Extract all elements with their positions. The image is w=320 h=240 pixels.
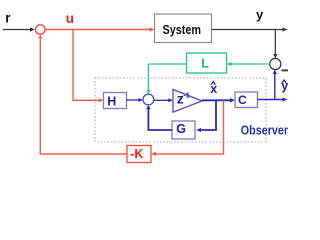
summing junction S2	[270, 58, 281, 69]
wire L to S3	[148, 64, 186, 91]
block G	[172, 121, 195, 139]
wire yhat up to S2	[274, 72, 276, 100]
wire yhat out	[258, 99, 284, 101]
wire xhat to K	[156, 100, 224, 154]
svg-text:C: C	[238, 93, 247, 107]
summing junction S3	[143, 94, 154, 105]
summing junction S1	[36, 25, 46, 35]
wire K feedback to S1	[40, 38, 127, 155]
svg-text:G: G	[176, 122, 186, 136]
svg-text:r: r	[5, 10, 11, 25]
wire y	[212, 29, 284, 31]
block -K	[127, 146, 151, 163]
block System	[155, 14, 212, 43]
wire S2 to L	[231, 63, 270, 65]
wire G to S3	[148, 108, 172, 131]
node xhat line	[202, 99, 231, 101]
wire y down to S2	[274, 30, 276, 56]
svg-text:-1: -1	[183, 91, 190, 100]
block L	[187, 53, 227, 73]
wire r input	[3, 29, 31, 31]
wire u	[45, 29, 150, 31]
svg-text:System: System	[163, 22, 202, 37]
delay z^-1	[173, 90, 202, 113]
svg-text:Observer: Observer	[241, 123, 288, 137]
svg-text:L: L	[201, 57, 209, 71]
svg-text:u: u	[66, 11, 74, 26]
svg-text:H: H	[107, 94, 116, 108]
minus sign at S2	[282, 69, 289, 71]
wire H to S3	[127, 99, 140, 101]
svg-text:-K: -K	[130, 147, 143, 161]
svg-text:y: y	[256, 7, 264, 22]
observer dotted box	[95, 78, 266, 142]
block H	[104, 93, 127, 109]
wire xhat to G	[200, 100, 217, 130]
block C	[235, 92, 258, 108]
wire u branch to H	[73, 30, 99, 101]
wire S3 to delay	[154, 99, 169, 101]
